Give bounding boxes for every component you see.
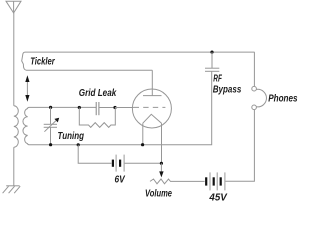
tube plate (143, 95, 162, 97)
tube grid (dashed) (134, 106, 166, 108)
wire 45V to phones riser (225, 110, 254, 182)
wire filament left leg (142, 123, 144, 145)
wire filament right leg (161, 123, 163, 163)
wire tickler to plate (151, 70, 153, 95)
antenna (6, 1, 21, 13)
svg-text:Grid Leak: Grid Leak (79, 88, 117, 99)
capacitor C3 RF Bypass (205, 68, 219, 71)
node: grid leak left junction (78, 106, 81, 109)
wire tuning cap top lead (50, 107, 52, 124)
node: volume wiper junction (160, 162, 163, 165)
node: RF bypass top junction (210, 51, 213, 54)
node: grid leak right junction (113, 106, 116, 109)
resistor R1 grid leak (loop below) (79, 108, 115, 128)
node: filament left junction (141, 143, 144, 146)
wire tuning cap bottom lead (50, 127, 52, 144)
node: tuning cap top junction (49, 106, 52, 109)
node: 6V branch junction (77, 143, 80, 146)
wire 6V branch (78, 145, 111, 163)
tickler coil L3 (balloon outline, top edge continues as B+ wire to phones corner) (22, 52, 255, 70)
ground (3, 186, 21, 193)
coupling arrow (double-headed, tickler adjustment) (25, 75, 29, 101)
wire primary to ground (13, 147, 15, 186)
svg-text:Tuning: Tuning (58, 131, 85, 142)
inductor L1 antenna primary coil (14, 106, 19, 147)
battery B1 6V (113, 155, 124, 172)
phones jack bottom terminal (252, 105, 257, 110)
battery B2 45V (206, 172, 225, 190)
wire RF bypass top lead (211, 52, 213, 68)
potentiometer R2 Volume (150, 179, 205, 184)
phones cord arc (256, 89, 266, 107)
svg-text:45V: 45V (208, 192, 228, 202)
wire grid leak cap to right node (99, 107, 115, 109)
vacuum tube V1 envelope (132, 89, 171, 128)
wire grid rail (coil top to grid leak) (29, 106, 96, 108)
wire bottom rail (tuned circuit return to RF bypass) (29, 71, 212, 144)
svg-text:Volume: Volume (145, 189, 172, 200)
phones jack top terminal (252, 86, 257, 91)
svg-text:Phones: Phones (268, 93, 298, 104)
tube filament (143, 114, 162, 123)
node: tuning cap bottom junction (49, 143, 52, 146)
capacitor C2 grid leak cap (96, 102, 99, 115)
svg-text:Bypass: Bypass (213, 84, 242, 95)
svg-text:6V: 6V (115, 175, 126, 186)
svg-text:RF: RF (213, 74, 222, 85)
volume wiper arrow (159, 163, 163, 177)
wire phones to B+ rail (253, 52, 255, 86)
wire grid to tube (115, 107, 134, 109)
variable capacitor C1 Tuning (44, 118, 60, 132)
wire antenna lead (13, 13, 15, 106)
svg-text:Tickler: Tickler (30, 56, 55, 67)
inductor L2 secondary tuning coil (23, 107, 29, 144)
wire 6V battery to volume junction (125, 162, 162, 164)
